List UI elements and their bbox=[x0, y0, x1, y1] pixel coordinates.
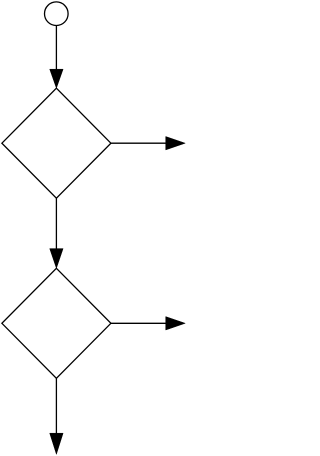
decision diamond 2 bbox=[2, 268, 111, 378]
start node circle bbox=[45, 2, 69, 26]
arrowhead right branch 2 bbox=[166, 317, 186, 330]
arrowhead into decision 2 bbox=[50, 249, 63, 269]
wire: decision 1 right branch bbox=[111, 142, 167, 144]
arrowhead into decision 1 bbox=[50, 69, 63, 88]
wire: decision 2 to exit bbox=[55, 378, 57, 434]
arrowhead exit bbox=[50, 433, 63, 454]
arrowhead right branch 1 bbox=[166, 137, 186, 150]
wire: decision 2 right branch bbox=[111, 322, 167, 324]
wire: decision 1 to decision 2 bbox=[55, 198, 57, 250]
wire: start to decision 1 bbox=[55, 26, 57, 71]
decision diamond 1 bbox=[2, 88, 111, 198]
